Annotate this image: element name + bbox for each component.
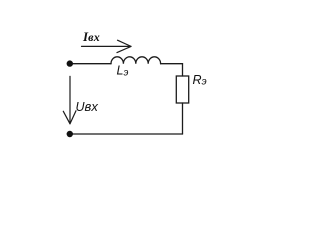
svg-text:Iвх: Iвх xyxy=(82,29,100,44)
svg-text:Uвх: Uвх xyxy=(76,99,99,114)
svg-text:Rэ: Rэ xyxy=(193,73,207,88)
